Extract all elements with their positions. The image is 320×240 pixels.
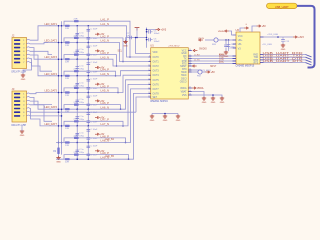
svg-text:GND: GND <box>123 45 128 47</box>
net labels pair 3 <box>45 52 110 59</box>
resistor L1 pair 8 <box>65 141 70 146</box>
wire arrow link <box>147 29 156 31</box>
svg-text:OSCO: OSCO <box>180 82 187 84</box>
uart wires <box>192 56 236 64</box>
wire vertical rail B <box>61 21 63 154</box>
harness labels <box>263 52 304 63</box>
ground trio right of U5 <box>202 97 207 104</box>
wire vdd rail vertical <box>146 28 148 48</box>
rail dots pair 3 <box>58 58 63 60</box>
svg-text:VBAT: VBAT <box>181 91 187 94</box>
svg-text:LED_DAT7: LED_DAT7 <box>45 123 58 126</box>
svg-text:OUT1: OUT1 <box>153 62 160 64</box>
svg-text:5: 5 <box>23 55 24 57</box>
svg-text:SWD: SWD <box>181 72 187 74</box>
svg-text:LED_DAT6: LED_DAT6 <box>45 106 58 109</box>
svg-text:WS2811 SOP16: WS2811 SOP16 <box>150 100 168 103</box>
svg-text:22R: 22R <box>74 35 78 37</box>
svg-text:GND: GND <box>281 49 286 51</box>
wire J2 routing <box>23 26 52 76</box>
svg-text:OUT4: OUT4 <box>153 75 160 77</box>
resistor L1 pair 1 <box>65 25 70 30</box>
svg-text:OUT3: OUT3 <box>153 71 160 73</box>
svg-text:J3: J3 <box>12 87 15 91</box>
svg-text:LED_B4: LED_B4 <box>105 138 115 141</box>
svg-text:35: 35 <box>189 65 191 67</box>
power arrow pair 1 <box>95 33 105 36</box>
net labels pair 8 <box>101 135 110 142</box>
svg-text:100n: 100n <box>231 47 235 49</box>
svg-text:38: 38 <box>189 94 191 96</box>
merge dot pair 8 <box>125 142 127 144</box>
cap C13 <box>281 37 290 45</box>
svg-text:7: 7 <box>23 116 24 118</box>
junction dots pair 7 <box>76 125 89 127</box>
svg-text:4: 4 <box>23 51 24 53</box>
ic U5 <box>150 43 188 102</box>
wire U6 top-left up <box>240 28 244 32</box>
svg-text:LED_DAT2: LED_DAT2 <box>45 40 58 43</box>
svg-text:SCL: SCL <box>118 51 123 53</box>
resistor L2 pair 9 <box>74 152 79 156</box>
junction dots pair 2 <box>76 42 89 44</box>
label nrst <box>192 65 196 67</box>
rail dots pair 1 <box>58 25 63 27</box>
svg-text:22R: 22R <box>74 152 78 154</box>
svg-text:22R: 22R <box>74 52 78 54</box>
svg-text:2: 2 <box>23 44 24 46</box>
svg-text:C 10nF: C 10nF <box>91 71 99 73</box>
svg-text:OUT6: OUT6 <box>153 84 160 86</box>
svg-text:NRST: NRST <box>210 66 217 68</box>
cap C5 <box>146 30 160 35</box>
resistor pulldown <box>53 148 60 155</box>
svg-text:SWC: SWC <box>181 75 187 77</box>
wire L2 pair 1 <box>64 21 130 57</box>
svg-text:22R: 22R <box>74 102 78 104</box>
resistor L1 pair 9 <box>65 158 70 163</box>
svg-text:3: 3 <box>23 47 24 49</box>
svg-text:VDD: VDD <box>153 52 158 54</box>
resistor L1 pair 3 <box>65 58 70 63</box>
svg-text:GND: GND <box>56 161 61 163</box>
ferrite bead FB2 <box>192 70 206 78</box>
junction dots pair 5 <box>76 92 89 94</box>
svg-text:13: 13 <box>148 78 150 80</box>
svg-text:GND: GND <box>21 79 26 81</box>
svg-text:RTS: RTS <box>254 63 259 65</box>
wire L2 pair 2 <box>64 38 123 62</box>
svg-text:U6: U6 <box>236 28 240 32</box>
cap C12 <box>224 40 233 52</box>
svg-text:17: 17 <box>148 96 150 98</box>
svg-text:GND: GND <box>150 120 155 122</box>
wire L2 pair 9 <box>64 155 129 160</box>
capacitor vertical left pair 1 <box>75 26 84 43</box>
svg-text:C 10nF: C 10nF <box>91 95 99 97</box>
svg-text:22R: 22R <box>74 19 78 21</box>
svg-text:12: 12 <box>148 74 150 76</box>
U6 right pin stubs <box>260 37 264 63</box>
svg-text:U5: U5 <box>150 43 154 47</box>
svg-text:100nF: 100nF <box>154 41 161 43</box>
net labels pair 6 <box>45 102 110 109</box>
vbus arrow left <box>199 39 203 41</box>
wire rail to pulldown <box>58 142 63 148</box>
svg-text:22R: 22R <box>65 28 69 30</box>
junction dots pair 9 <box>76 158 89 160</box>
under U5 gnd wire <box>152 113 178 116</box>
capacitor vertical right pair 5 <box>87 93 99 110</box>
svg-text:+5V: +5V <box>262 26 267 28</box>
rail dots pair 4 <box>58 75 63 77</box>
svg-text:UD+: UD+ <box>238 40 243 42</box>
cap C7 <box>126 33 132 39</box>
svg-text:NRST: NRST <box>180 66 187 68</box>
svg-text:22R: 22R <box>65 62 69 64</box>
svg-text:BT0: BT0 <box>182 69 187 71</box>
svg-text:22R: 22R <box>65 162 69 164</box>
resistor L1 pair 7 <box>65 125 70 130</box>
svg-text:OSCI: OSCI <box>181 78 187 80</box>
svg-text:CH340E MSOP10: CH340E MSOP10 <box>236 66 255 68</box>
ferrite FB3 <box>205 38 233 46</box>
capacitor vertical left pair 6 <box>75 109 84 126</box>
svg-text:30: 30 <box>189 49 191 51</box>
svg-text:C 10nF: C 10nF <box>91 79 99 81</box>
svg-text:22R: 22R <box>74 119 78 121</box>
wire J3 routing <box>30 93 136 126</box>
power arrow pair 4 <box>95 83 105 86</box>
capacitor vertical left pair 7 <box>75 126 84 143</box>
svg-text:TXD: TXD <box>254 57 259 59</box>
gnd C13 <box>281 44 286 51</box>
U6 left pin stubs <box>233 35 237 64</box>
svg-text:2: 2 <box>23 97 24 99</box>
svg-text:32: 32 <box>189 57 191 59</box>
svg-text:6: 6 <box>23 59 24 61</box>
capacitor vertical right pair 7 <box>87 126 99 143</box>
svg-text:SET: SET <box>153 97 158 99</box>
ground below J2 <box>21 74 26 81</box>
svg-text:DTR: DTR <box>253 60 258 62</box>
wire mid rail <box>126 37 148 39</box>
capacitor vertical left pair 4 <box>75 76 84 93</box>
wire L2 pair 4 <box>64 71 116 76</box>
power arrow after bead <box>206 71 216 74</box>
wire vbus hook <box>229 31 236 35</box>
power arrow pair 3 <box>95 66 105 69</box>
svg-text:GND: GND <box>176 120 181 122</box>
connector J3 <box>12 87 30 127</box>
wire L2 pair 7 <box>64 121 123 126</box>
svg-text:7: 7 <box>23 62 24 64</box>
net labels pair 2 <box>45 35 110 42</box>
power arrow pair 5 <box>95 100 105 103</box>
net labels pair 9 <box>101 152 110 159</box>
svg-text:6: 6 <box>23 112 24 114</box>
svg-text:22R: 22R <box>65 78 69 80</box>
rail dots pair 2 <box>58 42 63 44</box>
svg-text:RXD: RXD <box>253 54 258 56</box>
svg-text:22R: 22R <box>74 85 78 87</box>
wire L1 pair 9 <box>56 93 149 159</box>
power arrow U6 tl <box>244 27 248 29</box>
svg-text:3: 3 <box>23 101 24 103</box>
harness wires <box>264 55 312 66</box>
svg-text:15: 15 <box>148 87 150 89</box>
wire L2 pair 5 <box>64 88 118 93</box>
power arrow pair 8 <box>95 150 105 153</box>
svg-text:+3V3_MCU: +3V3_MCU <box>168 45 180 47</box>
extra labels P8 P9 <box>105 138 115 158</box>
resistor L1 pair 6 <box>65 108 70 113</box>
resistor L1 pair 2 <box>65 41 70 46</box>
svg-text:C 10nF: C 10nF <box>91 62 99 64</box>
power arrow pair 2 <box>95 50 105 53</box>
wire boot0 <box>192 70 211 72</box>
ic U6 <box>236 28 261 68</box>
ground mid cluster <box>123 38 128 48</box>
ground trio under U5 <box>150 115 155 122</box>
svg-text:VBUS: VBUS <box>218 31 224 33</box>
wire L1 pair 5 <box>44 75 149 92</box>
svg-text:33: 33 <box>189 60 191 62</box>
svg-text:1: 1 <box>23 40 24 42</box>
wire pulldown to gnd <box>58 154 60 157</box>
power arrow v3 usb <box>293 36 304 39</box>
svg-text:J2: J2 <box>12 34 15 38</box>
wires to gnd trio right <box>192 92 222 98</box>
capacitor vertical right pair 8 <box>87 143 99 160</box>
power arrow vdda <box>192 87 204 90</box>
uart labels <box>194 54 224 64</box>
svg-text:SWDIO: SWDIO <box>199 48 207 50</box>
svg-text:14: 14 <box>148 83 150 85</box>
resistor L2 pair 7 <box>74 119 79 123</box>
gnd C12 <box>224 51 229 58</box>
svg-text:37: 37 <box>189 87 191 89</box>
svg-text:10: 10 <box>148 65 150 67</box>
wire L2 pair 6 <box>64 105 121 110</box>
svg-text:GND: GND <box>220 102 225 104</box>
merge dot pair 7 <box>122 125 124 127</box>
svg-text:1: 1 <box>23 94 24 96</box>
rail dots pair 7 <box>58 125 63 127</box>
label swd <box>193 49 197 51</box>
svg-text:11: 11 <box>148 69 150 71</box>
net labels pair 1 <box>45 19 110 26</box>
wire v3 usb rail <box>264 34 294 38</box>
net labels pair 7 <box>45 119 110 126</box>
net labels pair 4 <box>45 69 110 76</box>
connector J2 <box>12 34 30 74</box>
wire L1 pair 8 <box>56 89 149 143</box>
svg-text:+3V3_USB: +3V3_USB <box>267 34 278 36</box>
svg-text:OUT8: OUT8 <box>153 93 160 95</box>
svg-text:RTS: RTS <box>219 62 224 64</box>
dot arrow link <box>146 29 148 31</box>
net labels pair 5 <box>45 85 110 92</box>
hierarchical port pill <box>267 3 298 9</box>
svg-text:UD-: UD- <box>238 44 242 46</box>
merge dot pair 6 <box>120 108 122 110</box>
svg-text:22R: 22R <box>65 112 69 114</box>
svg-text:GND: GND <box>181 53 186 55</box>
svg-text:C 10nF: C 10nF <box>91 112 99 114</box>
svg-text:C 10nF: C 10nF <box>91 145 99 147</box>
wire L2 pair 3 <box>64 55 117 66</box>
wire L1 pair 6 <box>44 80 149 109</box>
capacitor vertical right pair 6 <box>87 109 99 126</box>
wire L1 pair 1 <box>44 26 149 57</box>
wire L1 pair 2 <box>44 43 149 62</box>
capacitor vertical left pair 3 <box>75 59 84 76</box>
merge dot pair 2 <box>122 61 124 63</box>
svg-text:LED_DAT3: LED_DAT3 <box>45 56 58 59</box>
svg-text:22R: 22R <box>65 145 69 147</box>
resistor L2 pair 3 <box>74 52 79 56</box>
svg-text:31: 31 <box>189 55 191 57</box>
power T mid <box>135 28 140 31</box>
capacitor vertical right pair 3 <box>87 59 99 76</box>
resistor L2 pair 6 <box>74 102 79 106</box>
resistor L2 pair 4 <box>74 69 79 73</box>
wire U6 top-right up <box>252 26 257 32</box>
capacitor vertical left pair 8 <box>75 143 84 160</box>
vbus label into U6 <box>218 30 229 33</box>
merge dot pair 5 <box>117 92 119 94</box>
svg-text:22R: 22R <box>65 45 69 47</box>
resistor L2 pair 2 <box>74 35 79 39</box>
svg-text:VBUS: VBUS <box>198 38 204 40</box>
svg-text:40: 40 <box>189 90 191 92</box>
svg-text:VCC: VCC <box>238 36 243 38</box>
svg-text:USB_UART_RTS: USB_UART_RTS <box>263 60 304 63</box>
svg-text:+3V3: +3V3 <box>298 37 304 39</box>
svg-text:VDDA: VDDA <box>197 87 204 90</box>
merge dot pair 9 <box>128 158 130 160</box>
wire L1 pair 4 <box>44 71 149 76</box>
wire L1 pair 3 <box>44 59 149 66</box>
svg-text:8: 8 <box>149 56 150 58</box>
power arrow top right <box>257 25 267 28</box>
svg-text:22R: 22R <box>74 69 78 71</box>
resistor L1 pair 5 <box>65 91 70 96</box>
bus wire <box>297 6 315 68</box>
capacitor vertical right pair 1 <box>87 26 99 43</box>
wire pin10 <box>136 97 149 112</box>
merge dot pair 4 <box>115 75 117 77</box>
svg-text:LED_DAT5: LED_DAT5 <box>45 90 58 93</box>
svg-text:LED_DAT1: LED_DAT1 <box>45 23 58 26</box>
resistor L2 pair 8 <box>74 135 79 139</box>
svg-text:LED_DAT4: LED_DAT4 <box>45 73 58 76</box>
cap C14 below fb3 <box>227 39 236 51</box>
junction dots pair 1 <box>76 25 89 27</box>
svg-text:C 10nF: C 10nF <box>91 45 99 47</box>
svg-text:DF13-7P-1.25H: DF13-7P-1.25H <box>12 71 27 74</box>
resistor L2 pair 5 <box>74 85 79 89</box>
junction dots pair 6 <box>76 108 89 110</box>
rail dots pair 5 <box>58 92 63 94</box>
svg-text:4: 4 <box>23 105 24 107</box>
svg-text:+5V_USB: +5V_USB <box>262 44 272 46</box>
svg-text:C 10nF: C 10nF <box>91 129 99 131</box>
svg-text:GND: GND <box>163 120 168 122</box>
capacitor vertical left pair 5 <box>75 93 84 110</box>
svg-text:9: 9 <box>149 60 150 62</box>
svg-text:OUT7: OUT7 <box>153 89 160 91</box>
wire to vdd pin <box>135 37 151 54</box>
svg-text:VDDA: VDDA <box>180 87 187 90</box>
ground below J3 <box>20 130 25 137</box>
svg-text:OUT0: OUT0 <box>153 57 160 59</box>
svg-text:VSS: VSS <box>182 95 187 97</box>
svg-text:GND: GND <box>20 135 25 137</box>
wire T stem <box>136 28 138 38</box>
svg-text:+5V: +5V <box>211 72 216 74</box>
svg-text:U_RX: U_RX <box>194 54 200 56</box>
wire L2 pair 8 <box>64 138 126 143</box>
rail dots pair 6 <box>58 108 63 110</box>
svg-text:AGND: AGND <box>219 54 226 57</box>
svg-text:LED_B5: LED_B5 <box>105 155 115 158</box>
svg-text:36: 36 <box>189 69 191 71</box>
resistor L2 pair 1 <box>74 19 79 23</box>
svg-text:34: 34 <box>189 62 191 64</box>
power arrow pair 6 <box>95 116 105 119</box>
power arrow pair 7 <box>95 133 105 136</box>
power arrow +3v3 top <box>156 28 167 31</box>
resistor L1 pair 4 <box>65 75 70 80</box>
ground pulldown <box>56 156 61 163</box>
capacitor vertical right pair 4 <box>87 76 99 93</box>
svg-text:100nF: 100nF <box>154 33 161 35</box>
svg-text:C 10nF: C 10nF <box>91 29 99 31</box>
svg-text:22R: 22R <box>65 128 69 130</box>
svg-text:U_TX: U_TX <box>194 59 200 61</box>
svg-text:DF13-7P-1.25H: DF13-7P-1.25H <box>12 124 27 127</box>
svg-text:VCC: VCC <box>182 51 187 53</box>
svg-text:22R: 22R <box>65 95 69 97</box>
merge dot pair 3 <box>116 65 118 67</box>
junction dots pair 4 <box>76 75 89 77</box>
capacitor vertical right pair 2 <box>87 43 99 60</box>
svg-text:USB_UART: USB_UART <box>275 5 289 9</box>
svg-text:OUT5: OUT5 <box>153 80 160 82</box>
ic U5 left pin stubs <box>148 56 151 98</box>
cap C6 <box>146 38 160 43</box>
svg-text:39: 39 <box>189 71 191 73</box>
junction dots pair 8 <box>76 142 89 144</box>
wire L1 pair 7 <box>44 84 149 126</box>
svg-text:22R: 22R <box>74 135 78 137</box>
svg-text:GND: GND <box>211 102 216 104</box>
svg-text:+3V3: +3V3 <box>161 30 167 32</box>
svg-text:GND: GND <box>202 102 207 104</box>
merge dot pair 1 <box>129 56 131 58</box>
capacitor vertical left pair 2 <box>75 43 84 60</box>
svg-text:OUT2: OUT2 <box>153 66 160 68</box>
svg-text:5: 5 <box>23 108 24 110</box>
wire vertical rail A <box>58 26 60 143</box>
ic U5 right pin stubs <box>188 49 192 96</box>
junction dots pair 3 <box>76 58 89 60</box>
svg-text:C 10nF: C 10nF <box>91 138 99 140</box>
svg-text:16: 16 <box>148 92 150 94</box>
